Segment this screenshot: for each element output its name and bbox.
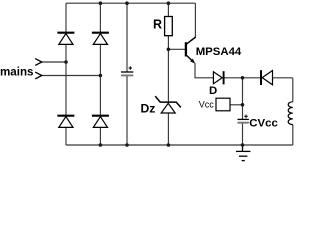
svg-text:CVcc: CVcc [249, 118, 277, 130]
svg-text:D: D [209, 85, 217, 97]
node bottom-cap junction [125, 143, 129, 147]
wire left bridge branch [65, 3, 67, 145]
wire Vcc vertical to CVcc [242, 78, 244, 119]
wire top bus [66, 2, 195, 4]
diode D2 [261, 70, 273, 85]
wire bottom bus [66, 144, 293, 146]
wire CVcc to ground node [242, 123, 244, 145]
inductor L1 [288, 102, 293, 125]
svg-text:Vcc: Vcc [199, 100, 215, 110]
capacitor C1 [121, 66, 133, 75]
wire collector [194, 3, 196, 37]
node top-resistor junction [167, 1, 171, 5]
svg-text:R: R [153, 17, 162, 31]
wire zener bottom lead [167, 113, 169, 145]
node mains-lower junction [99, 74, 103, 78]
wire right bridge branch [99, 3, 101, 145]
wire capacitor branch bottom [126, 76, 128, 145]
diode D [213, 71, 223, 84]
capacitor CVcc [238, 115, 249, 123]
node base junction [167, 48, 171, 52]
node Vcc-box junction [241, 103, 245, 107]
wire capacitor branch top [126, 3, 128, 71]
node D-cathode junction [241, 76, 245, 80]
wire resistor bottom lead to zener [167, 36, 169, 102]
resistor R [165, 17, 173, 36]
node top-right-branch junction [99, 1, 103, 5]
node mains-upper junction [64, 60, 68, 64]
node bottom-right-branch junction [99, 143, 103, 147]
ground [236, 145, 250, 161]
svg-text:Dz: Dz [141, 101, 156, 115]
svg-text:mains: mains [0, 66, 34, 79]
diode bridge top-left [57, 33, 74, 45]
zener diode Dz [155, 96, 181, 113]
wire resistor top lead [167, 3, 169, 16]
wire mains upper terminal [42, 61, 66, 63]
diode bridge bottom-left [57, 116, 74, 128]
wire node Vcc to diode D2 [273, 77, 293, 79]
wire base [168, 48, 185, 50]
mains terminal chevron upper [35, 59, 42, 66]
diode bridge bottom-right [92, 116, 109, 128]
Vcc net box [216, 98, 230, 111]
node top-cap junction [125, 1, 129, 5]
svg-text:MPSA44: MPSA44 [196, 46, 242, 58]
node bottom-zener junction [167, 143, 171, 147]
wire right drop to inductor [292, 78, 294, 102]
wire mains lower terminal [42, 75, 100, 77]
node ground junction [241, 143, 245, 147]
wire emitter to diode D [195, 63, 213, 78]
wire diode D cathode to node Vcc [224, 77, 261, 79]
wire Vcc box link [230, 104, 243, 106]
wire inductor bottom lead [292, 124, 294, 145]
diode bridge top-right [92, 33, 109, 45]
transistor Q1 MPSA44 [186, 37, 196, 64]
mains terminal chevron lower [35, 72, 42, 79]
